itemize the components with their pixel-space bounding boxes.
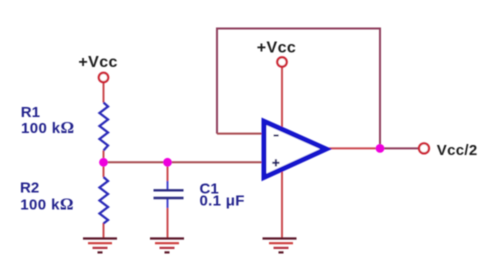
svg-text:Vcc/2: Vcc/2 [437, 142, 478, 159]
svg-text:100 kΩ: 100 kΩ [20, 194, 74, 213]
svg-text:R1: R1 [21, 104, 40, 121]
svg-text:0.1 μF: 0.1 μF [200, 193, 245, 210]
svg-text:+Vcc: +Vcc [78, 54, 117, 71]
svg-text:100 kΩ: 100 kΩ [21, 118, 75, 137]
svg-text:R2: R2 [20, 180, 39, 197]
svg-text:+Vcc: +Vcc [257, 40, 296, 57]
